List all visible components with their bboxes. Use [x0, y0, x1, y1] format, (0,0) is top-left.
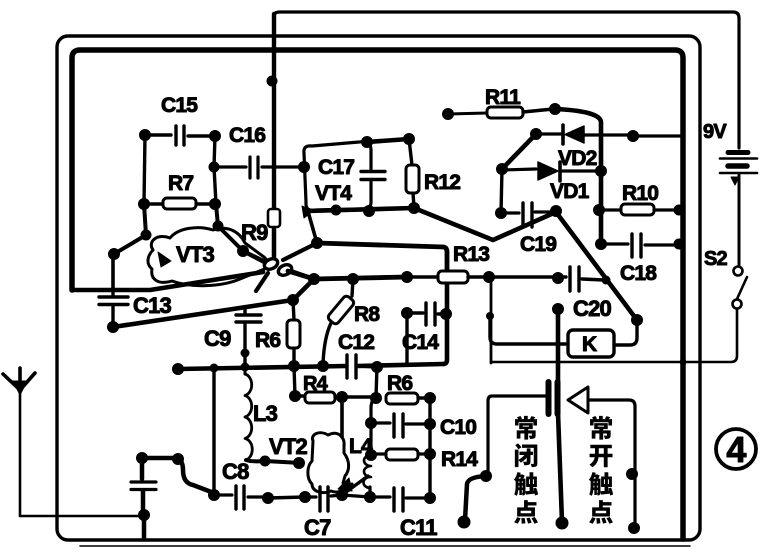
inductor L4 — [365, 449, 377, 461]
svg-text:C8: C8 — [222, 459, 249, 484]
capacitor C10 — [365, 417, 377, 429]
svg-text:C18: C18 — [620, 262, 657, 285]
svg-text:R14: R14 — [441, 448, 478, 471]
diagonal wire C19 right to relay lead — [556, 212, 637, 320]
capacitor C9 column — [243, 307, 246, 313]
wire left column C15 to R7 — [144, 135, 145, 204]
svg-text:C16: C16 — [229, 124, 265, 147]
resistor R12 — [409, 139, 414, 207]
wire emitter row down to C8 — [212, 368, 215, 494]
diode VD1 — [502, 169, 536, 170]
right column wire R6-C10-R14-C11 — [428, 398, 431, 498]
resistor R4 — [289, 390, 301, 402]
capacitor C7 — [268, 497, 305, 498]
outer board border rectangle — [57, 36, 700, 540]
left column wire to C10/L4/R14/C11 — [371, 398, 376, 455]
relay K coil — [614, 320, 637, 345]
contact symbol — [546, 382, 552, 414]
svg-text:R10: R10 — [622, 182, 658, 205]
capacitor C18 — [595, 238, 607, 250]
svg-text:R9: R9 — [241, 220, 268, 245]
resistor R13 — [407, 275, 438, 278]
VT4 emitter arrow — [302, 206, 313, 218]
base bias wire to R13 row — [288, 271, 407, 279]
capacitor C11 — [364, 491, 376, 503]
resistor R8 (diagonal) — [323, 279, 353, 364]
diode VD2 — [530, 128, 542, 140]
resistor R11 — [442, 108, 454, 120]
label 常闭触点 (normally-closed contact) — [515, 416, 537, 440]
wire pad pair near antenna cap — [142, 456, 178, 461]
wire R7 right down to VT3 collector — [216, 204, 266, 262]
svg-text:R4: R4 — [303, 373, 329, 395]
svg-text:C7: C7 — [304, 515, 331, 540]
capacitor C15 row — [145, 126, 215, 145]
svg-text:R8: R8 — [354, 303, 380, 326]
wire L3 bottom to VT2 base — [246, 460, 301, 463]
resistor R10 — [593, 204, 605, 216]
svg-text:L4: L4 — [349, 435, 373, 458]
capacitor C14 — [401, 307, 413, 319]
svg-text:R6: R6 — [387, 372, 412, 395]
svg-text:VT3: VT3 — [176, 242, 215, 267]
svg-text:C11: C11 — [400, 515, 437, 540]
transistor VT3 — [148, 228, 268, 286]
svg-text:L3: L3 — [253, 401, 278, 426]
svg-text:C9: C9 — [204, 326, 231, 351]
wire VT2 collector up to R4 — [340, 397, 344, 437]
crossing loops node (twisted wires) — [272, 230, 276, 256]
capacitor C20 row — [489, 275, 566, 278]
NO contact wire — [590, 400, 635, 527]
resistor R7 — [144, 202, 215, 205]
wire C14 left down to emitter row — [405, 313, 408, 365]
svg-text:C12: C12 — [338, 331, 374, 354]
svg-text:R6: R6 — [255, 329, 280, 352]
capacitor C16 row — [214, 157, 310, 178]
relay armature line — [552, 303, 564, 315]
hollow triangle contact arrow — [568, 387, 588, 413]
wire VD2 left node down to VD1 node — [502, 134, 536, 169]
label 常开触点 (normally-open contact) — [590, 416, 612, 440]
resistor R6 (left, vertical) — [293, 300, 294, 365]
svg-text:VD1: VD1 — [550, 180, 590, 203]
svg-text:R13: R13 — [453, 243, 489, 266]
wire C7 right to C11 left — [342, 495, 370, 497]
capacitor C17 plates — [361, 170, 385, 173]
capacitor C13 — [99, 290, 128, 322]
resistor R6 (right) — [386, 393, 418, 404]
wire VD1 node down to C19 — [501, 169, 502, 213]
wire R11 right corner down (rectifier column) — [555, 109, 601, 244]
wire antenna stub to bottom border — [142, 516, 147, 539]
svg-text:VD2: VD2 — [558, 147, 597, 170]
node on battery wire — [267, 76, 278, 87]
svg-text:C13: C13 — [133, 293, 172, 318]
wire VT4 top edge to R12 — [367, 139, 409, 142]
capacitor C12 — [345, 355, 348, 378]
wire C7 right up to L4 bottom — [342, 476, 368, 495]
svg-text:VT4: VT4 — [315, 182, 352, 205]
svg-text:C20: C20 — [573, 296, 612, 321]
battery loop wire (top) — [274, 12, 739, 258]
figure number 4 circled — [716, 429, 756, 469]
emitter wire row y=366 — [178, 366, 346, 369]
svg-text:S2: S2 — [704, 248, 728, 270]
NC contact wire — [488, 396, 546, 474]
wire L3 top / coil L3 — [244, 367, 247, 374]
long diagonal wire C13 to C9/R6 node — [113, 300, 293, 327]
svg-text:K: K — [582, 333, 597, 356]
svg-text:C19: C19 — [520, 233, 556, 256]
transistor VT2 — [308, 433, 349, 493]
svg-text:C17: C17 — [318, 156, 354, 179]
thick supply rail (top/left/right) — [72, 50, 683, 539]
capacitor C19 — [501, 211, 519, 214]
wire node up to base rail — [293, 279, 314, 300]
battery 9V — [720, 153, 757, 267]
svg-text:C15: C15 — [161, 94, 198, 117]
svg-text:R11: R11 — [485, 86, 521, 109]
svg-text:9V: 9V — [703, 121, 727, 143]
ground wire along left (thick) — [72, 272, 263, 290]
V diagonal wire R12 bottom to C19 right — [414, 208, 556, 240]
wire VT3 emitter node down to ground line — [111, 254, 115, 290]
wire vertical through R13 to C14 right — [445, 270, 450, 314]
svg-text:VT2: VT2 — [269, 434, 308, 459]
wire VT4 bottom edge to R12 bottom — [307, 208, 414, 211]
wire R7 left down to VT3 base node — [114, 204, 146, 254]
svg-text:R7: R7 — [168, 172, 193, 195]
antenna — [3, 368, 144, 516]
switch S2 — [491, 267, 747, 363]
junction where S2 wire crosses rail — [680, 359, 687, 366]
svg-text:R12: R12 — [424, 171, 460, 194]
battery return vertical to C20/K node — [490, 277, 493, 363]
svg-text:C14: C14 — [402, 331, 439, 354]
transistor VT4 body — [304, 142, 371, 211]
svg-text:C10: C10 — [440, 416, 476, 439]
wire VT4 emitter node to C14 loop — [317, 243, 447, 270]
wire right column C15 to C16 to R7 — [214, 136, 216, 204]
bottom edge extra line — [80, 545, 690, 547]
wire elbow to C8 — [178, 459, 214, 493]
svg-text:4: 4 — [726, 429, 746, 470]
capacitor C8 — [208, 489, 220, 501]
resistor R14 — [371, 452, 386, 455]
wire C12 right down to R6 right row — [376, 367, 377, 397]
resistor R9 body on battery drop wire — [268, 209, 280, 227]
corner into C14 loop — [443, 314, 447, 364]
antenna coupling capacitor — [131, 458, 156, 513]
